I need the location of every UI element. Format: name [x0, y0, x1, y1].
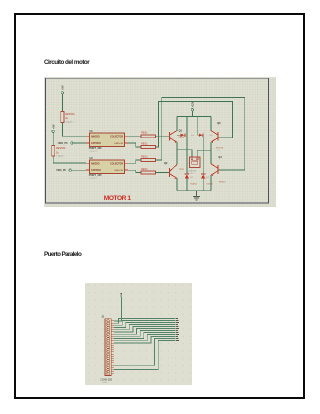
motor M1 [187, 150, 200, 176]
pin 15 [107, 351, 114, 354]
svg-text:ANODO: ANODO [91, 162, 100, 165]
resistor RES530 [52, 146, 66, 159]
svg-text:ANODO: ANODO [91, 135, 100, 138]
svg-text:EMISOR: EMISOR [114, 170, 123, 172]
connector J1 [100, 315, 112, 384]
svg-text:<TEXT>: <TEXT> [89, 177, 98, 180]
wire pin 3 to net label [114, 320, 178, 325]
pin 25 [107, 373, 114, 376]
resistor RES4 [141, 168, 156, 174]
wire pin 21 to net label [114, 338, 178, 365]
pin 20 [107, 362, 114, 365]
wire [71, 169, 86, 171]
wire pin 7 to net label [114, 328, 179, 334]
svg-text:PORT_ON: PORT_ON [89, 173, 102, 177]
svg-text:Q1: Q1 [179, 130, 183, 133]
pin 14 [107, 348, 114, 351]
svg-text:UNO_PC: UNO_PC [56, 169, 66, 172]
wire [61, 94, 63, 112]
pin 2 [107, 322, 114, 325]
diode D3 [197, 116, 213, 150]
pin 1 [107, 320, 114, 323]
svg-text:PORT_ON: PORT_ON [89, 146, 102, 150]
transistor Q3 [211, 116, 224, 152]
svg-text:RES530: RES530 [56, 147, 66, 150]
wire RES2 loop to Q3 base [155, 102, 232, 147]
wire [191, 111, 193, 117]
pin 21 [107, 364, 114, 367]
node label (top) [121, 293, 122, 296]
sheet border [46, 78, 269, 203]
svg-text:+5V: +5V [52, 124, 55, 129]
svg-text:1N4001: 1N4001 [190, 183, 197, 185]
terminal UNO_PC (to U2) [56, 169, 71, 172]
pin 3 [107, 324, 114, 327]
transistor Q2 [164, 150, 185, 191]
schematic 2: parallel port [85, 283, 192, 385]
pin 4 [107, 326, 114, 329]
pin 18 [107, 357, 114, 360]
ground [193, 191, 200, 200]
wire mid-left rail [177, 149, 192, 151]
wire ground rail [177, 190, 211, 192]
svg-text:CATODO: CATODO [91, 169, 101, 172]
resistor RES3 [141, 156, 156, 162]
svg-text:<TEXT>: <TEXT> [56, 155, 65, 158]
svg-text:<TEXT>: <TEXT> [65, 121, 74, 124]
wire pin 11 to net label [114, 336, 178, 343]
wire pin 5 to net label [114, 324, 178, 330]
pin 10 [107, 340, 114, 343]
svg-text:MOTOR 1: MOTOR 1 [104, 195, 132, 202]
diode D1 [177, 116, 195, 149]
wire [73, 142, 86, 144]
wire U1 collector to RES1 [128, 135, 141, 137]
wire pin 9 to net label [114, 332, 178, 339]
wire RES3 loop to Q4 base [155, 97, 244, 169]
svg-text:COLECTOR: COLECTOR [110, 136, 123, 138]
svg-text:1N4001: 1N4001 [206, 183, 213, 185]
diode D4 [201, 150, 213, 191]
wire RES1 to Q1 base [155, 135, 169, 137]
wire pin 8 to net label [114, 330, 178, 336]
wire top rail [177, 115, 211, 117]
svg-text:TIP31: TIP31 [179, 169, 185, 171]
wire pin 6 to net label [114, 326, 178, 332]
schematic 1: motor H-bridge [44, 77, 276, 207]
pin 16 [107, 353, 114, 356]
svg-text:<TEXT>: <TEXT> [89, 150, 98, 153]
svg-text:+5V: +5V [61, 85, 65, 90]
wire [52, 133, 54, 146]
pin 12 [107, 344, 114, 347]
resistor RES1 [141, 131, 156, 137]
terminal UNO_PC (to U1) [58, 142, 73, 145]
svg-text:CATODO: CATODO [91, 142, 101, 145]
svg-text:RES520: RES520 [65, 113, 75, 116]
pin 24 [107, 370, 114, 373]
optocoupler U2 [86, 157, 128, 180]
resistor RES520 [61, 111, 75, 124]
svg-text:TIP31: TIP31 [179, 137, 185, 139]
svg-text:DSUB: DSUB [102, 382, 108, 384]
svg-text:UNO_PC: UNO_PC [58, 142, 68, 145]
svg-text:EMISOR: EMISOR [114, 143, 123, 145]
pin 7 [107, 333, 114, 336]
svg-text:+12V: +12V [192, 101, 195, 107]
wire mid-right rail [197, 149, 211, 151]
svg-text:TIP31C: TIP31C [218, 182, 226, 184]
wire U1 emitter to RES2 [128, 143, 141, 147]
pin 17 [107, 355, 114, 358]
wire pin 4 to net label [114, 322, 179, 328]
pin 13 [107, 346, 114, 349]
pin 9 [107, 337, 114, 340]
optocoupler U1 [86, 130, 128, 153]
wire pin 10 to net label [114, 334, 179, 341]
pin 5 [107, 328, 114, 331]
pin 6 [107, 331, 114, 334]
wire [53, 156, 86, 163]
pin 19 [107, 359, 114, 362]
wire pin 23 to net label [114, 340, 179, 370]
pin 8 [107, 335, 114, 338]
power terminal +5V (top left) [61, 85, 65, 94]
resistor RES2 [141, 143, 156, 149]
wire U2 emitter to RES4 [128, 170, 141, 172]
svg-text:COLECTOR: COLECTOR [110, 163, 123, 165]
power terminal +12V (bridge top) [191, 101, 194, 111]
pin 11 [107, 342, 114, 345]
transistor Q1 [169, 116, 185, 149]
wire RES4 to Q2 base [155, 172, 169, 174]
pin 23 [107, 368, 114, 371]
wire U2 collector to RES3 [128, 160, 141, 163]
transistor Q4 [211, 150, 226, 191]
wire [62, 123, 86, 137]
wire pin 2 to net label [114, 318, 178, 323]
pin 22 [107, 366, 114, 369]
label MOTOR 1 [104, 195, 132, 202]
diode D2 [185, 150, 197, 191]
svg-text:COMP-M: COMP-M [187, 171, 196, 173]
power terminal +5V (left, second) [52, 124, 55, 132]
svg-text:RES1: RES1 [141, 131, 148, 134]
wire pin1 up [114, 297, 121, 321]
